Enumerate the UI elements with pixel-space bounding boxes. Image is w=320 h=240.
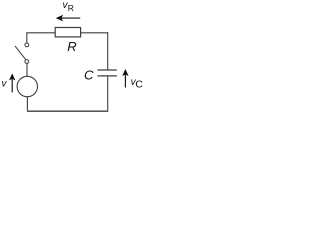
wire: switch to voltage source bbox=[26, 63, 28, 76]
wire: top-left corner from switch up and right to resistor bbox=[27, 33, 55, 43]
svg-text:C: C bbox=[84, 67, 94, 82]
svg-text:v: v bbox=[2, 79, 8, 90]
arrow vR (voltage across resistor, pointing left) bbox=[56, 15, 80, 22]
wire: right side up to capacitor bottom plate bbox=[107, 76, 109, 111]
wire: resistor right to top-right corner bbox=[80, 32, 108, 34]
switch S1 top terminal bbox=[25, 43, 29, 47]
arrow vC (voltage across capacitor, pointing up) bbox=[122, 69, 128, 88]
svg-text:R: R bbox=[68, 3, 74, 13]
resistor R body bbox=[55, 28, 80, 37]
capacitor C bottom plate bbox=[98, 75, 117, 77]
svg-text:R: R bbox=[67, 39, 76, 54]
wire: source bottom to bottom rail bbox=[26, 97, 28, 112]
arrow v (source voltage, pointing up) bbox=[9, 73, 15, 92]
voltage source V1 circle bbox=[17, 76, 37, 96]
switch S1 blade (open) bbox=[15, 46, 26, 60]
wire: bottom rail bbox=[27, 110, 108, 112]
svg-text:C: C bbox=[135, 80, 143, 91]
capacitor C top plate bbox=[98, 69, 117, 71]
wire: capacitor top plate up to top rail bbox=[107, 32, 109, 70]
switch S1 bottom terminal bbox=[25, 60, 29, 64]
